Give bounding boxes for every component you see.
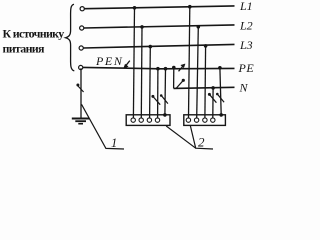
node N tap for box 2 — [211, 86, 215, 90]
feeder wire L1 to box 2 — [189, 7, 190, 118]
neutral wire to box 1 — [157, 69, 159, 118]
feeder wire L3 to box 2 — [204, 46, 207, 118]
link slash on earthing conductor — [76, 84, 83, 93]
supply terminal circle PEN — [79, 65, 83, 69]
wire L1 — [85, 6, 235, 9]
ground symbol — [72, 119, 90, 124]
leader line from box 1 to label 2 — [166, 126, 196, 148]
earthing conductor (from PEN circle down) — [80, 68, 82, 118]
node PE tap on PEN for box 1 — [164, 67, 168, 71]
node PE tap for box 2 — [218, 66, 222, 70]
neutral wire to box 2 — [212, 88, 214, 118]
leader line from box 2 to label 2 — [190, 126, 213, 150]
wire PEN / PE — [83, 67, 235, 68]
leader line to label 1 — [82, 104, 125, 149]
svg-text:питания: питания — [3, 42, 45, 56]
node L3 tap 2 — [204, 44, 208, 48]
wire N — [174, 87, 235, 88]
node N tap on PEN for box 1 — [156, 67, 160, 71]
label: К источнику питания — [3, 27, 65, 56]
feeder wire L2 to box 1 — [140, 27, 143, 118]
arrow marker at PE-N split — [179, 64, 186, 71]
feeder wire L2 to box 2 — [197, 27, 199, 118]
link slash on neutral wire box 2 — [208, 93, 217, 103]
wire L3 — [84, 44, 235, 48]
node PE on box 1 edge — [163, 113, 167, 117]
box 1 (group shield) — [126, 115, 170, 126]
svg-text:PE: PE — [238, 61, 255, 75]
svg-text:1: 1 — [111, 136, 117, 150]
box 2 terminal circles — [186, 118, 215, 122]
svg-text:PEN: PEN — [95, 54, 123, 68]
wire PE to N drop — [173, 68, 175, 89]
node L1 tap 2 — [188, 5, 192, 9]
node L2 tap 2 — [197, 25, 201, 29]
link slash on protective wire box 2 — [216, 93, 224, 103]
feeder wire L3 to box 1 — [149, 47, 152, 118]
supply terminal circle L1 — [80, 7, 84, 11]
svg-text:N: N — [239, 80, 249, 94]
link slash on neutral wire box 1 — [151, 95, 160, 105]
arrow to PEN wire — [124, 61, 130, 69]
link slash with dot near N start — [176, 79, 185, 89]
wire L2 — [84, 25, 235, 28]
box 1 terminal circles — [131, 118, 160, 122]
supply terminal circle L2 — [80, 26, 84, 30]
svg-text:К источнику: К источнику — [3, 27, 65, 41]
node L1 tap 1 — [133, 6, 137, 10]
svg-text:L1: L1 — [239, 0, 253, 13]
svg-text:2: 2 — [198, 135, 205, 150]
protective wire to box 1 — [164, 69, 167, 115]
svg-text:L2: L2 — [239, 19, 253, 33]
brace — [66, 4, 75, 71]
link slash on protective wire box 1 — [160, 94, 168, 103]
node PE-N split — [172, 66, 176, 70]
node PE on box 2 edge — [219, 113, 223, 117]
feeder wire L1 to box 1 — [133, 8, 134, 118]
node L3 tap 1 — [149, 45, 153, 49]
svg-text:L3: L3 — [239, 38, 253, 52]
protective wire to box 2 — [220, 68, 221, 115]
node L2 tap 1 — [140, 25, 144, 29]
supply terminal circle L3 — [79, 46, 83, 50]
box 2 (group shield) — [184, 115, 226, 126]
